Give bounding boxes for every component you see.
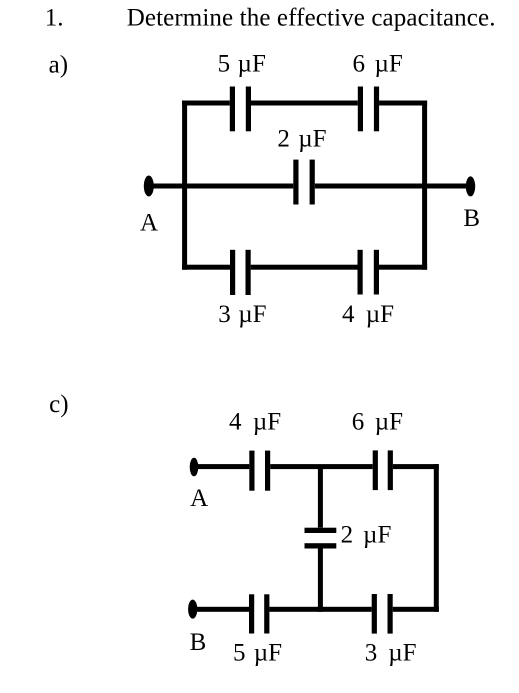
wire: circuit a bottom branch segment 2: [251, 265, 358, 270]
capacitor 5 uF plates (circuit c): [249, 594, 269, 633]
wire: circuit a middle branch left segment (from terminal A): [149, 184, 293, 189]
svg-text:1.: 1.: [45, 5, 64, 32]
capacitor 6 uF plates (circuit a): [358, 87, 379, 132]
wire: circuit a top branch segment 1: [182, 101, 230, 106]
svg-text:4 µF: 4 µF: [229, 408, 281, 435]
capacitor 2 uF plates (circuit a): [293, 160, 315, 205]
wire: circuit c middle vertical upper segment: [318, 467, 323, 528]
capacitor 4 uF plates (circuit a): [358, 250, 380, 295]
wire: circuit a top branch segment 3: [379, 101, 427, 106]
wire: circuit a bottom branch segment 1: [182, 265, 230, 270]
capacitor 3 uF plates (circuit c): [372, 594, 393, 634]
wire: circuit c top branch segment 2: [270, 464, 373, 469]
wire: circuit a middle branch right segment (to terminal B): [315, 184, 471, 189]
svg-text:B: B: [463, 205, 480, 232]
svg-text:Determine the effective capaci: Determine the effective capacitance.: [127, 5, 496, 32]
capacitor 4 uF plates (circuit c): [249, 451, 270, 491]
wire: circuit a right vertical: [422, 101, 427, 270]
wire: circuit c bottom branch segment 1 (from terminal B): [193, 607, 249, 612]
svg-text:2 µF: 2 µF: [277, 125, 326, 152]
wire: circuit c bottom branch segment 2: [269, 607, 371, 612]
wire: circuit c bottom branch segment 3: [393, 607, 439, 612]
wire: circuit a left vertical: [182, 101, 187, 270]
terminal A dot (circuit a): [144, 176, 154, 197]
svg-text:6 µF: 6 µF: [353, 50, 403, 77]
terminal B dot (circuit c): [188, 600, 197, 619]
capacitor 5 uF plates (circuit a): [230, 87, 251, 132]
svg-text:3 µF: 3 µF: [365, 640, 417, 667]
svg-text:c): c): [49, 391, 68, 418]
svg-text:3 µF: 3 µF: [218, 301, 266, 328]
svg-text:a): a): [49, 52, 68, 79]
svg-text:A: A: [190, 485, 208, 512]
capacitor 3 uF plates (circuit a): [230, 250, 251, 295]
svg-text:5 µF: 5 µF: [233, 640, 282, 667]
terminal B dot (circuit a): [466, 176, 475, 196]
wire: circuit c top branch segment 1 (from terminal A): [194, 464, 249, 469]
wire: circuit c middle vertical lower segment: [318, 549, 323, 612]
svg-text:5 µF: 5 µF: [218, 50, 266, 77]
wire: circuit a top branch segment 2: [251, 101, 358, 106]
wire: circuit a bottom branch segment 3: [379, 265, 427, 270]
terminal A dot (circuit c): [190, 458, 199, 477]
capacitor 2 uF plates (circuit c, vertical): [305, 528, 337, 549]
svg-text:4 µF: 4 µF: [342, 301, 394, 328]
wire: circuit c top branch segment 3: [393, 464, 439, 469]
svg-text:6 µF: 6 µF: [352, 408, 403, 435]
svg-text:B: B: [190, 629, 207, 656]
svg-text:2 µF: 2 µF: [341, 522, 392, 549]
wire: circuit c right vertical: [434, 464, 439, 612]
capacitor 6 uF plates (circuit c): [373, 450, 393, 490]
svg-text:A: A: [140, 209, 158, 236]
